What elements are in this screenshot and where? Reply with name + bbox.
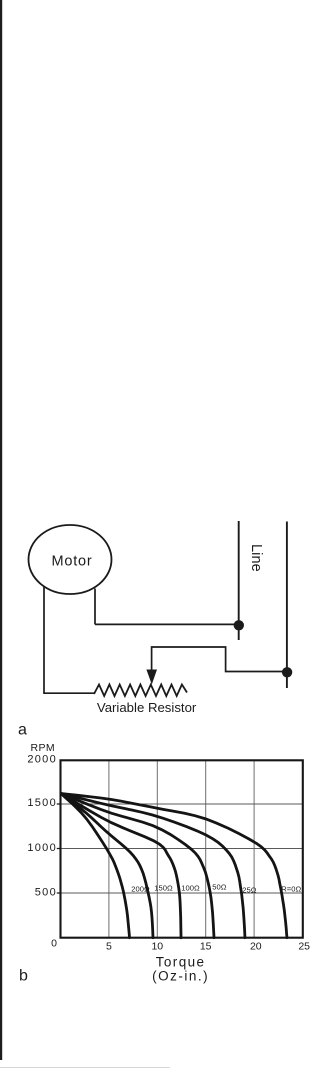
svg-text:10: 10 xyxy=(151,941,163,953)
chart border frame xyxy=(61,760,303,937)
svg-text:25: 25 xyxy=(298,941,310,953)
svg-text:1500: 1500 xyxy=(27,797,57,809)
wire motor left lead down xyxy=(43,586,45,693)
svg-text:200Ω: 200Ω xyxy=(131,885,150,894)
svg-text:b: b xyxy=(19,968,28,985)
svg-text:a: a xyxy=(18,722,27,739)
node junction dot 1 xyxy=(234,620,244,630)
resistor R1 zigzag xyxy=(94,685,187,697)
faint bottom rule xyxy=(0,1067,170,1068)
svg-text:500: 500 xyxy=(35,887,57,899)
wire motor to line junction xyxy=(95,623,239,625)
wire line conductor 1 xyxy=(238,521,240,640)
svg-text:RPM: RPM xyxy=(31,742,56,754)
wiper arrowhead xyxy=(146,670,157,685)
svg-text:0: 0 xyxy=(51,938,57,950)
chart axis ticks xyxy=(57,804,61,893)
page left border rule xyxy=(0,0,2,1060)
svg-text:1000: 1000 xyxy=(27,842,57,854)
svg-text:(Oz-in.): (Oz-in.) xyxy=(152,969,209,984)
motor M1 xyxy=(29,525,112,594)
svg-text:100Ω: 100Ω xyxy=(181,884,200,893)
svg-text:15: 15 xyxy=(200,941,212,953)
wire motor right lead down xyxy=(94,589,96,625)
curve 150 ohm xyxy=(61,794,153,938)
wire motor bottom lead to resistor xyxy=(43,692,94,694)
svg-text:R=0Ω: R=0Ω xyxy=(281,885,301,894)
svg-text:150Ω: 150Ω xyxy=(154,884,173,893)
svg-text:Torque: Torque xyxy=(156,955,206,970)
wire line 2 to wiper step xyxy=(152,647,288,672)
curve R=0 ohm xyxy=(61,794,287,938)
curve 25 ohm xyxy=(61,794,245,938)
svg-text:25Ω: 25Ω xyxy=(242,886,256,895)
curve 200 ohm xyxy=(61,794,130,938)
chart grid horizontal lines xyxy=(61,804,303,893)
svg-text:Motor: Motor xyxy=(51,554,92,570)
curve 50 ohm xyxy=(61,794,214,938)
svg-text:Variable Resistor: Variable Resistor xyxy=(97,700,197,715)
curve 100 ohm xyxy=(61,794,181,938)
chart grid vertical lines xyxy=(109,761,254,938)
svg-text:5: 5 xyxy=(106,941,112,953)
wire line conductor 2 xyxy=(286,522,288,689)
svg-text:50Ω: 50Ω xyxy=(212,883,226,892)
svg-text:20: 20 xyxy=(250,941,262,953)
svg-text:Line: Line xyxy=(248,544,264,572)
node junction dot 2 xyxy=(282,667,292,677)
svg-text:2000: 2000 xyxy=(27,754,57,766)
